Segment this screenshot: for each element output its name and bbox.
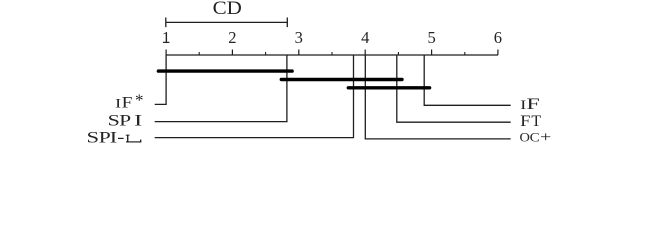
svg-text:IF: IF — [520, 96, 540, 113]
svg-text:3: 3 — [295, 28, 303, 47]
svg-text:FT: FT — [520, 113, 541, 130]
significance bar group 1 (IF*, SPI) — [158, 69, 292, 72]
svg-text:5: 5 — [427, 28, 435, 47]
svg-text:SPI: SPI — [108, 113, 143, 130]
significance bar group 2 (SPI, SPI-L, OC+, FT) — [281, 78, 402, 81]
connector SPI-L (rank 3.82) — [155, 55, 354, 138]
svg-text:IF: IF — [115, 95, 132, 112]
tick digit 1 base serif — [163, 42, 170, 43]
connector FT (rank 4.48) — [397, 55, 511, 122]
svg-text:2: 2 — [228, 28, 236, 47]
svg-text:SPI: SPI — [87, 129, 118, 146]
svg-text:*: * — [135, 90, 144, 109]
svg-text:CD: CD — [213, 0, 242, 19]
svg-text:OC+: OC+ — [520, 130, 552, 146]
svg-text:4: 4 — [361, 28, 369, 47]
axis line — [166, 54, 499, 56]
svg-text:6: 6 — [494, 28, 502, 47]
connector OC+ (rank 4.00) — [365, 55, 510, 139]
label SPI-L hyphen — [118, 138, 124, 139]
connector IF* (rank 1.00) — [155, 55, 166, 104]
CD bracket — [166, 18, 287, 28]
connector IF (rank 4.89) — [424, 55, 511, 105]
major ticks — [166, 50, 498, 56]
label SPI-L smallcap L glyph — [126, 135, 142, 143]
significance bar group 3 (SPI-L, OC+, FT, IF) — [348, 86, 429, 89]
connector SPI (rank 2.82) — [155, 55, 287, 122]
minor ticks — [199, 52, 465, 55]
svg-text:1: 1 — [162, 28, 170, 47]
